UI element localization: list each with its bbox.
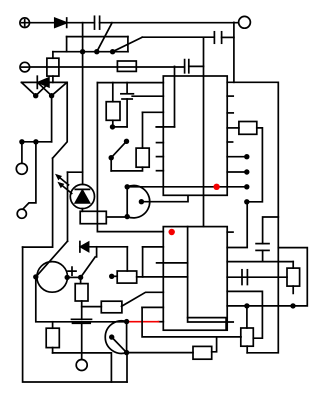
- wire: [67, 22, 95, 24]
- wire stub: [157, 156, 164, 158]
- wire: [82, 306, 102, 308]
- resistor R7: [287, 268, 300, 286]
- wire: [126, 99, 128, 127]
- resistor R1: [47, 58, 59, 76]
- diode D2: [37, 76, 49, 88]
- wire: [80, 277, 82, 283]
- wire: [142, 36, 214, 38]
- wire: [292, 262, 294, 269]
- capacitor C7: [72, 319, 92, 323]
- wire: [30, 22, 55, 24]
- switch S1: [113, 37, 143, 52]
- wire: [97, 23, 112, 52]
- wire: [100, 22, 239, 24]
- wire: [21, 142, 23, 164]
- node: [33, 274, 38, 279]
- wire: [222, 36, 234, 38]
- node: [65, 275, 70, 280]
- op-amp U1: [163, 76, 227, 195]
- node: [244, 184, 249, 189]
- wire: [227, 261, 293, 263]
- wire stub: [157, 170, 164, 172]
- node red: [169, 229, 175, 235]
- wire: [82, 23, 84, 52]
- wire: [188, 318, 227, 331]
- node: [33, 139, 38, 144]
- wire: [246, 306, 248, 328]
- node: [19, 139, 24, 144]
- LED arrow: [57, 182, 71, 194]
- wire: [227, 82, 278, 353]
- wire: [52, 52, 54, 59]
- wire: [67, 172, 69, 241]
- node: [125, 214, 130, 219]
- wire V2: [38, 82, 67, 95]
- wire: [112, 120, 114, 127]
- pin stub: [227, 156, 247, 158]
- LED arrow: [55, 174, 69, 185]
- wire: [68, 171, 83, 173]
- wire: [110, 158, 112, 171]
- node: [125, 184, 130, 189]
- wire: [137, 276, 188, 278]
- wire stub: [292, 286, 294, 293]
- wire: [262, 250, 264, 261]
- source B1: [37, 262, 68, 293]
- node: [244, 199, 249, 204]
- capacitor C3: [185, 60, 189, 73]
- wire: [263, 217, 279, 244]
- resistor R3: [80, 211, 106, 223]
- resistor R12: [75, 284, 88, 301]
- switch S2: [111, 141, 126, 157]
- wire: [227, 248, 307, 306]
- terminal T3: [239, 16, 251, 28]
- wire: [52, 348, 54, 353]
- resistor R10: [241, 328, 254, 346]
- wire: [112, 337, 127, 353]
- wire: [142, 307, 241, 337]
- node: [109, 334, 114, 339]
- wire: [53, 353, 112, 382]
- node: [124, 350, 129, 355]
- wire: [113, 126, 128, 128]
- resistor R11: [101, 301, 122, 313]
- wire: [23, 247, 127, 382]
- node: [124, 319, 129, 324]
- resistor R6: [239, 122, 257, 135]
- node red: [213, 184, 219, 190]
- node: [110, 124, 115, 129]
- wire: [227, 127, 239, 129]
- wire: [112, 275, 118, 277]
- terminal + T1: [20, 18, 30, 28]
- node: [244, 169, 249, 174]
- pin stub: [227, 171, 247, 173]
- wire red segment: [129, 321, 159, 323]
- wire: [52, 76, 54, 82]
- wire: [227, 291, 262, 338]
- capacitor C4: [121, 94, 133, 99]
- wire: [246, 346, 248, 353]
- wire: [53, 51, 128, 53]
- switch S3: [81, 257, 96, 278]
- node: [109, 155, 114, 160]
- wire: [142, 112, 144, 148]
- node: [49, 93, 54, 98]
- wire: [233, 22, 235, 82]
- wire: [36, 277, 127, 322]
- LED D4: [70, 184, 94, 208]
- wire: [227, 276, 287, 278]
- wire red: [159, 321, 164, 323]
- wire: [66, 37, 68, 52]
- node: [78, 275, 83, 280]
- wire: [227, 202, 247, 248]
- wire: [81, 209, 83, 212]
- wire: [174, 66, 176, 127]
- node: [244, 154, 249, 159]
- wire: [127, 37, 129, 52]
- resistor R13: [46, 328, 59, 347]
- diode D3: [80, 242, 89, 253]
- node: [139, 199, 144, 204]
- wire: [143, 246, 164, 248]
- wire: [126, 353, 128, 382]
- wire: [53, 82, 68, 158]
- wire: [157, 262, 188, 264]
- pin stub: [227, 141, 232, 143]
- wire: [132, 95, 163, 97]
- node: [244, 303, 249, 308]
- resistor R2: [117, 61, 136, 71]
- wire: [52, 322, 54, 328]
- wire: [122, 292, 164, 306]
- pin stub: [227, 112, 233, 114]
- wire: [112, 83, 114, 102]
- wire: [22, 141, 52, 143]
- node: [124, 139, 129, 144]
- wire stub: [157, 142, 164, 144]
- pin stub: [227, 231, 233, 233]
- resistor R4: [106, 102, 120, 121]
- op-amp U2: [163, 227, 227, 331]
- wire: [143, 111, 164, 113]
- gate G1: [127, 186, 150, 218]
- wire: [96, 247, 98, 257]
- wire: [67, 276, 80, 278]
- wire: [141, 195, 188, 201]
- wire: [81, 301, 83, 319]
- wire: [126, 247, 128, 271]
- wire dual V top line: [22, 81, 67, 83]
- wire: [142, 306, 163, 308]
- wire stub: [156, 126, 163, 128]
- resistor R9: [193, 346, 212, 359]
- pin stub: [227, 95, 233, 97]
- wire V1: [22, 82, 50, 95]
- wire: [126, 83, 128, 94]
- terminal T6: [76, 360, 87, 371]
- terminal T5: [17, 209, 26, 218]
- wire: [127, 186, 247, 188]
- wire: [127, 352, 193, 354]
- wire diagonal chord: [36, 241, 68, 277]
- wire: [67, 36, 128, 38]
- node: [80, 49, 85, 54]
- capacitor C2: [214, 32, 221, 43]
- terminal T4: [16, 163, 27, 174]
- capacitor C5: [256, 244, 269, 251]
- resistor R8: [117, 271, 137, 283]
- wire: [82, 52, 84, 185]
- wire: [212, 337, 217, 352]
- wire: [156, 126, 174, 128]
- node: [110, 49, 115, 54]
- wire: [189, 65, 204, 67]
- wire: [247, 128, 263, 202]
- wire: [81, 323, 83, 359]
- wire: [203, 37, 205, 226]
- wire: [89, 246, 128, 248]
- wire: [106, 216, 127, 218]
- wire interior: [188, 227, 234, 322]
- node: [33, 93, 38, 98]
- wire: [97, 83, 163, 232]
- terminal T2: [20, 62, 30, 72]
- wire: [23, 158, 53, 247]
- label plus: [68, 267, 76, 275]
- capacitor C1: [95, 16, 100, 29]
- node: [94, 49, 99, 54]
- wire: [97, 82, 163, 84]
- wire: [111, 167, 142, 171]
- capacitor C6: [242, 270, 247, 285]
- diode D1: [55, 18, 67, 27]
- wire: [30, 66, 185, 68]
- wire: [51, 96, 53, 142]
- resistor R5: [136, 148, 149, 167]
- node: [290, 303, 295, 308]
- node: [109, 274, 114, 279]
- gate G2: [105, 321, 126, 354]
- wire: [23, 142, 36, 209]
- wire: [142, 247, 144, 277]
